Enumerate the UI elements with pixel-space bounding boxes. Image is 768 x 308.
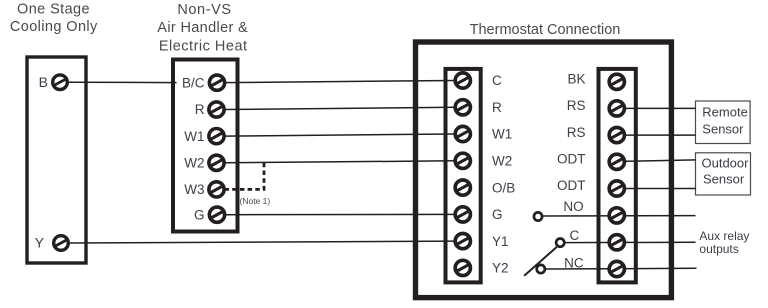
wire R to thermostat R	[225, 107, 456, 109]
svg-text:Cooling Only: Cooling Only	[10, 19, 98, 35]
svg-text:ODT: ODT	[557, 178, 586, 193]
Aux relay outputs label	[699, 229, 749, 256]
svg-text:C: C	[492, 73, 502, 88]
wire NC contact to aux output	[545, 267, 696, 270]
box: Remote Sensor	[696, 101, 751, 144]
svg-text:RS: RS	[567, 125, 586, 140]
thermostat right strip labels	[557, 72, 586, 271]
terminal Y1	[455, 234, 470, 249]
svg-text:Sensor: Sensor	[702, 121, 744, 136]
terminal ODT top	[609, 154, 624, 169]
wire W2 to thermostat W2	[225, 161, 456, 163]
svg-text:NC: NC	[564, 256, 584, 271]
svg-text:Non-VS: Non-VS	[177, 2, 231, 18]
svg-text:B: B	[39, 74, 48, 90]
terminal NC	[609, 261, 624, 276]
svg-text:Air Handler &: Air Handler &	[157, 20, 248, 36]
box: Non-VS Air Handler unit	[173, 60, 238, 232]
terminal RS top	[609, 101, 624, 116]
svg-text:W1: W1	[492, 127, 512, 142]
svg-text:ODT: ODT	[557, 152, 586, 167]
svg-text:(Note 1): (Note 1)	[240, 196, 271, 206]
svg-text:One Stage: One Stage	[17, 1, 90, 17]
svg-text:Outdoor: Outdoor	[702, 156, 750, 171]
svg-text:Y1: Y1	[492, 234, 509, 249]
terminal C aux	[609, 235, 624, 250]
box: thermostat left terminal strip	[446, 69, 481, 283]
svg-text:outputs: outputs	[699, 242, 738, 256]
wire B/C to thermostat C	[225, 81, 456, 83]
svg-text:NO: NO	[563, 199, 583, 214]
svg-text:G: G	[194, 207, 205, 222]
heading: One Stage Cooling Only	[10, 1, 98, 35]
terminal Y	[54, 236, 69, 251]
svg-text:W2: W2	[184, 156, 204, 171]
wire ODT to Outdoor Sensor bottom	[625, 188, 696, 190]
svg-text:R: R	[195, 102, 205, 117]
air handler terminal B/C	[209, 75, 224, 90]
relay contact C	[556, 239, 564, 247]
terminal W2	[455, 153, 470, 168]
svg-text:Electric Heat: Electric Heat	[159, 38, 248, 54]
air handler terminal W2	[209, 155, 224, 170]
Remote Sensor label	[702, 105, 748, 137]
wire NO contact to aux output	[542, 215, 695, 217]
air handler terminal labels	[182, 75, 205, 222]
box: One Stage Cooling Only unit	[27, 57, 86, 263]
air handler terminal G	[209, 207, 224, 222]
wire G to thermostat G	[225, 213, 456, 215]
svg-text:W1: W1	[184, 129, 204, 144]
wire B to air handler	[68, 81, 177, 83]
terminal B	[53, 75, 68, 90]
svg-text:Y: Y	[35, 235, 45, 251]
box: Outdoor Sensor	[696, 153, 751, 195]
terminal RS bottom	[609, 128, 624, 143]
svg-text:Thermostat Connection: Thermostat Connection	[470, 22, 621, 38]
terminal NO	[609, 208, 624, 223]
svg-text:O/B: O/B	[492, 180, 515, 195]
air handler terminal W1	[209, 129, 224, 144]
svg-text:G: G	[492, 207, 503, 222]
wire Y to thermostat Y1	[69, 241, 456, 243]
wire W1 to thermostat W1	[225, 134, 456, 136]
svg-text:BK: BK	[567, 72, 585, 87]
thermostat left strip terminals	[455, 73, 470, 276]
wire RS to Remote Sensor top	[625, 107, 696, 109]
svg-text:B/C: B/C	[182, 75, 205, 90]
thermostat left strip labels	[492, 73, 515, 275]
Outdoor Sensor label	[702, 156, 750, 187]
wire C contact to aux output	[565, 241, 696, 243]
svg-text:W3: W3	[184, 182, 204, 197]
svg-text:Y2: Y2	[492, 261, 509, 276]
terminal C	[455, 73, 470, 88]
terminal O/B	[455, 180, 470, 195]
air handler terminal W3	[209, 182, 224, 197]
terminal W1	[455, 126, 470, 141]
svg-text:C: C	[569, 228, 579, 243]
dashed wire W3 to W2 wire (Note 1)	[225, 163, 265, 190]
terminal BK	[609, 74, 624, 89]
wire ODT to Outdoor Sensor top	[625, 160, 696, 161]
relay switch arm from C	[524, 247, 557, 276]
terminal ODT bottom	[609, 181, 624, 196]
svg-text:R: R	[492, 100, 502, 115]
terminal Y2	[455, 260, 470, 275]
air handler terminal R	[209, 102, 224, 117]
svg-text:Remote: Remote	[702, 105, 748, 120]
wire RS to Remote Sensor bottom	[625, 134, 696, 136]
box: thermostat right terminal strip	[599, 69, 636, 283]
relay contact NO	[534, 212, 542, 220]
heading: Non-VS Air Handler & Electric Heat	[157, 2, 248, 55]
svg-text:Sensor: Sensor	[703, 171, 745, 186]
svg-text:W2: W2	[492, 154, 512, 169]
terminal G	[455, 207, 470, 222]
thermostat right strip terminals	[609, 74, 624, 276]
box: Thermostat Connection outline	[416, 42, 672, 298]
terminal R	[455, 100, 470, 115]
svg-text:RS: RS	[567, 98, 586, 113]
relay contact NC	[537, 265, 545, 273]
